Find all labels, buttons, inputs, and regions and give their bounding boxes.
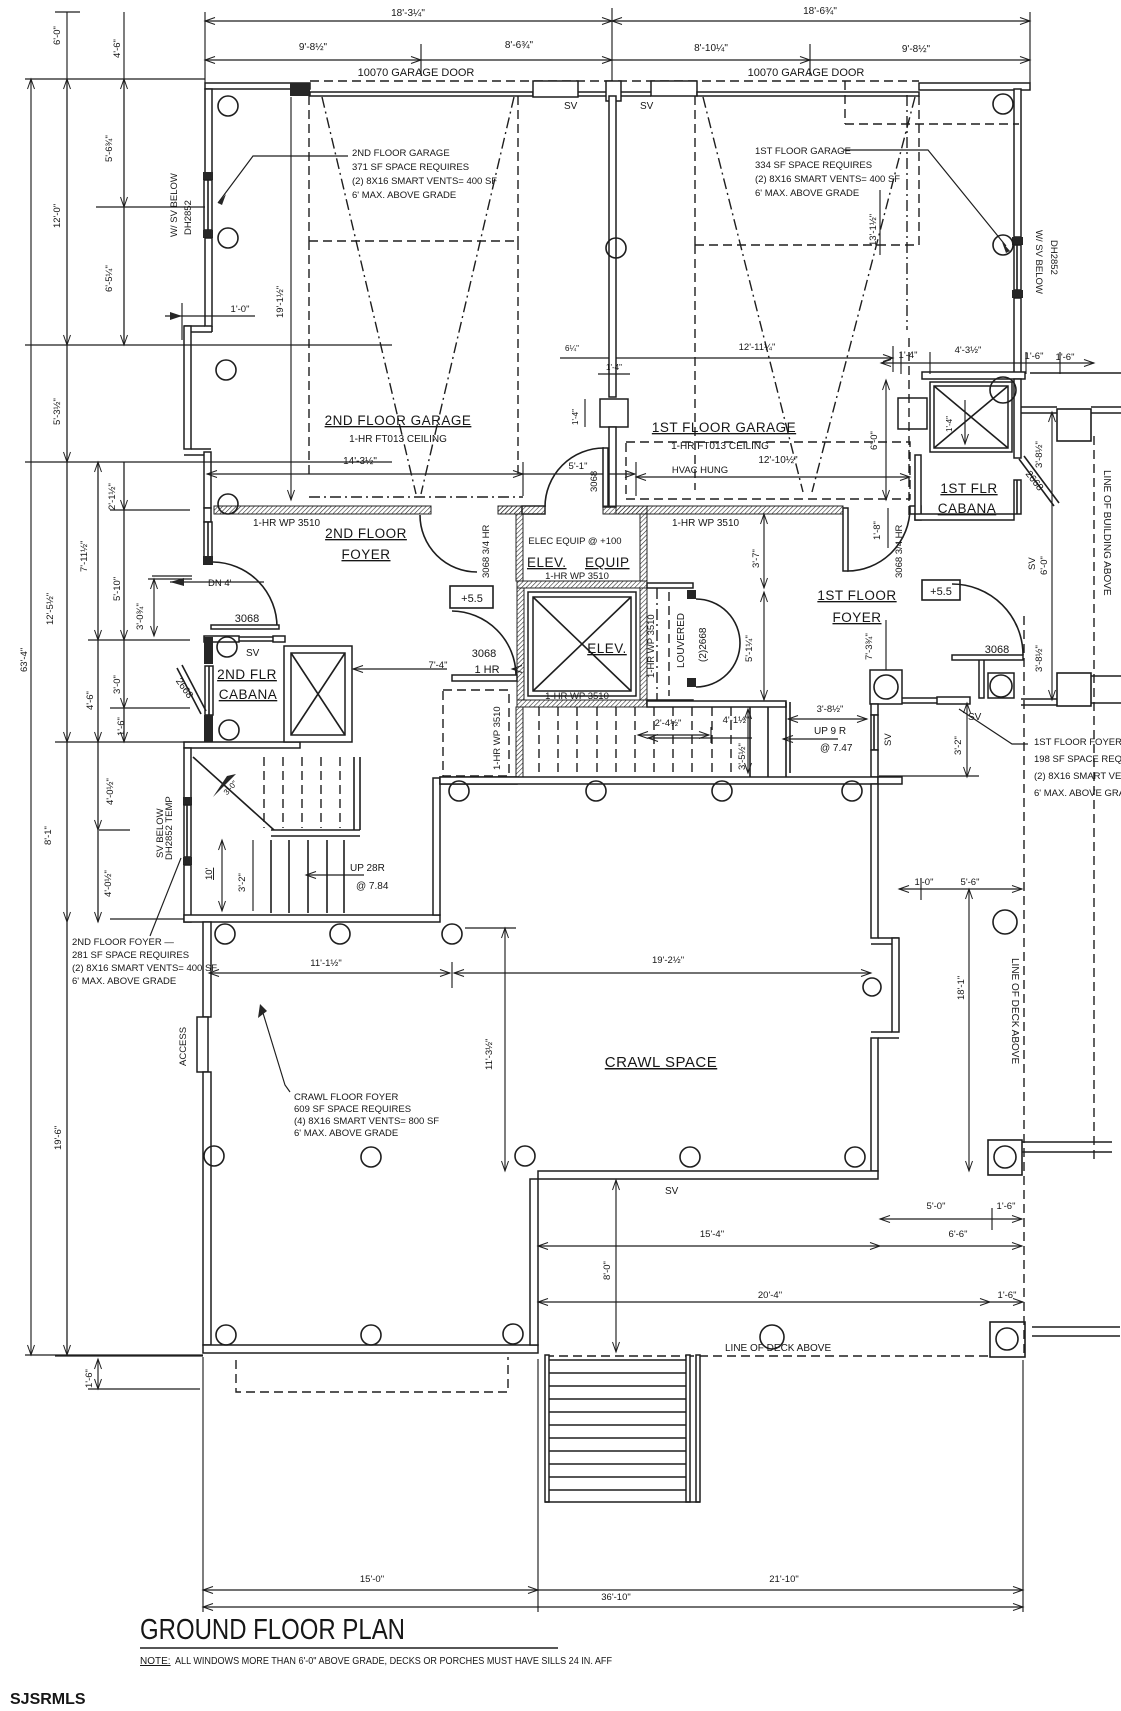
svg-text:12'-10½": 12'-10½" [758,455,798,466]
wall below shaft to foyer level [516,707,523,777]
garage door 1 dashed header [310,80,919,82]
svg-text:15'-0": 15'-0" [360,1574,384,1585]
svg-text:UP 28R: UP 28R [350,863,385,874]
svg-text:6'-0": 6'-0" [52,26,63,45]
svg-text:SV: SV [1027,557,1038,570]
svg-text:6' MAX. ABOVE GRADE: 6' MAX. ABOVE GRADE [755,188,859,199]
svg-text:SV: SV [640,101,654,112]
svg-text:1'-6": 1'-6" [84,1369,95,1388]
deck edge at top right [1021,406,1057,408]
east wall [433,778,440,915]
svg-text:ELEV.: ELEV. [527,555,567,570]
pier black at door jamb [290,83,310,96]
svg-text:19'-6": 19'-6" [53,1126,64,1150]
svg-text:3068 3/4 HR: 3068 3/4 HR [481,525,492,578]
svg-text:2ND FLOOR GARAGE: 2ND FLOOR GARAGE [352,148,450,159]
svg-text:GROUND FLOOR PLAN: GROUND FLOOR PLAN [140,1614,405,1646]
svg-text:6'-0": 6'-0" [1039,556,1050,575]
solid risers [749,707,751,777]
svg-text:8'-6¾": 8'-6¾" [505,40,534,51]
svg-text:ELEC EQUIP @ +100: ELEC EQUIP @ +100 [528,536,621,547]
garage door 1 panel [310,92,533,96]
svg-text:3'-0": 3'-0" [112,675,123,694]
west wall with DH2852 TEMP window [184,748,191,805]
svg-text:63'-4": 63'-4" [19,648,30,672]
svg-text:SV: SV [564,101,578,112]
pier hollow [651,81,697,96]
west wall and bottom wall [915,455,921,520]
svg-text:(2) 8X16 SMART VENTS: (2) 8X16 SMART VENTS [1034,771,1121,782]
svg-text:(2) 8X16 SMART VENTS= 400 SF: (2) 8X16 SMART VENTS= 400 SF [72,963,217,974]
svg-text:10070 GARAGE DOOR: 10070 GARAGE DOOR [358,67,475,79]
1-HR wall right [616,506,843,514]
svg-text:281 SF SPACE REQUIRES: 281 SF SPACE REQUIRES [72,950,189,961]
svg-text:DH2852: DH2852 [183,200,194,235]
svg-text:1-HR WP 3510: 1-HR WP 3510 [672,518,740,529]
svg-text:LINE OF DECK ABOVE: LINE OF DECK ABOVE [1009,958,1020,1064]
wall segment left [205,83,310,89]
center wall cap [606,81,621,101]
svg-text:1ST FLOOR: 1ST FLOOR [817,588,896,603]
svg-text:3'-8½": 3'-8½" [1034,645,1045,672]
dashed box below door [308,96,310,241]
svg-text:1'-0": 1'-0" [231,304,250,315]
svg-text:(2) 8X16 SMART VENTS= 400 SF: (2) 8X16 SMART VENTS= 400 SF [755,174,900,185]
door 3068 3/4HR into 1st floor foyer [847,508,910,571]
svg-text:334 SF SPACE REQUIRES: 334 SF SPACE REQUIRES [755,160,872,171]
svg-text:+5.5: +5.5 [461,593,483,605]
SV sill left of center [578,91,606,93]
svg-text:2ND FLOOR FOYER —: 2ND FLOOR FOYER — [72,937,174,948]
svg-text:3'-8½": 3'-8½" [817,704,844,715]
sill and window [902,697,937,699]
svg-text:CABANA: CABANA [938,501,997,516]
svg-text:1'-4": 1'-4" [571,409,580,425]
crawl floor foyer note + leader [263,1013,290,1092]
chain at x=124 top [123,12,125,345]
svg-text:6' MAX. ABOVE GRADE: 6' MAX. ABOVE GRADE [294,1128,398,1139]
dashed landing rect in front of elevator [443,690,509,776]
equipment box on wall [600,399,628,427]
svg-text:9'-8½": 9'-8½" [299,42,328,53]
2668 swing door on west [177,668,201,714]
svg-text:FOYER: FOYER [341,547,390,562]
+5.5 box [922,580,960,600]
dim line 9'-8 / 8'-6 / 8'-10 / 9'-8 [205,59,421,61]
svg-text:+5.5: +5.5 [930,586,952,598]
svg-text:1ST FLOOR GARAGE: 1ST FLOOR GARAGE [652,420,796,435]
up arrow symbol [213,774,236,797]
upper flight dashed risers [263,757,265,828]
svg-text:3068 3/4 HR: 3068 3/4 HR [894,525,905,578]
svg-text:2'-4½": 2'-4½" [655,718,682,729]
svg-text:6¼": 6¼" [565,344,579,353]
svg-text:5'-1¼": 5'-1¼" [744,635,755,662]
svg-text:LINE OF BUILDING ABOVE: LINE OF BUILDING ABOVE [1101,470,1112,596]
svg-text:12'-11¼": 12'-11¼" [739,342,776,353]
2nd floor foyer note + leader [150,858,181,936]
svg-text:CRAWL FLOOR FOYER: CRAWL FLOOR FOYER [294,1092,398,1103]
svg-text:10070 GARAGE DOOR: 10070 GARAGE DOOR [748,67,865,79]
2nd floor garage leader + note [218,156,348,203]
svg-text:1'-6": 1'-6" [1025,351,1044,362]
garage door 2 panel [697,92,919,96]
svg-text:2ND FLR: 2ND FLR [217,667,277,682]
wall from stair to elevator [440,777,517,784]
svg-text:1-HR FT013 CEILING: 1-HR FT013 CEILING [349,434,447,445]
svg-text:1'-0": 1'-0" [915,877,934,888]
chain at x=124 middle [123,462,125,742]
dashed porch rect below crawl foyer [236,1357,508,1392]
svg-text:1ST FLOOR FOYER: 1ST FLOOR FOYER [1034,737,1121,748]
south wall of crawl space [538,1171,878,1179]
exterior stair [545,1355,549,1502]
svg-text:SV: SV [968,712,982,723]
svg-text:1-HR WP 3510: 1-HR WP 3510 [253,518,321,529]
svg-text:SV: SV [665,1186,679,1197]
west wall with window [204,508,211,522]
jog out [184,325,205,327]
svg-text:@ 7.84: @ 7.84 [356,881,389,892]
dashed verticals continue [308,241,310,474]
svg-text:HVAC HUNG: HVAC HUNG [672,465,728,476]
svg-text:8'-10¼": 8'-10¼" [694,42,728,54]
svg-text:NOTE:: NOTE: [140,1656,171,1667]
svg-text:3'-2": 3'-2" [237,873,248,892]
svg-text:3'-5½": 3'-5½" [737,743,748,770]
east wall of lower section [530,1179,538,1345]
svg-text:1'-6": 1'-6" [1056,352,1075,363]
shaft top wall [922,372,1025,379]
extension lines [204,12,206,83]
svg-text:36'-10": 36'-10" [601,1592,630,1603]
svg-text:EQUIP: EQUIP [585,555,630,570]
svg-text:2'-1½": 2'-1½" [107,483,118,510]
svg-text:DN 4': DN 4' [208,578,232,589]
svg-text:3068: 3068 [985,644,1009,656]
svg-text:6' MAX. ABOVE GRADE: 6' MAX. ABOVE GRADE [72,976,176,987]
svg-text:ALL WINDOWS MORE THAN 6'-0" AB: ALL WINDOWS MORE THAN 6'-0" ABOVE GRADE,… [175,1656,612,1667]
svg-text:5'-3½": 5'-3½" [52,398,63,425]
svg-text:18'-6¾": 18'-6¾" [803,6,837,17]
1st floor garage leader + note [843,150,1006,246]
svg-text:ELEV.: ELEV. [587,641,627,656]
svg-text:(2) 8X16 SMART VENTS= 400 SF: (2) 8X16 SMART VENTS= 400 SF [352,176,497,187]
svg-text:2ND FLOOR GARAGE: 2ND FLOOR GARAGE [325,413,472,428]
svg-text:3'-2": 3'-2" [953,736,964,755]
svg-text:1 HR: 1 HR [474,664,499,676]
svg-text:13'-1½": 13'-1½" [868,214,879,246]
svg-text:198 SF SPACE REQUIR: 198 SF SPACE REQUIR [1034,754,1121,765]
svg-text:SV BELOW: SV BELOW [155,808,166,858]
pier hollow [533,81,578,97]
svg-text:1ST FLR: 1ST FLR [940,481,997,496]
svg-text:5'-6¾": 5'-6¾" [104,135,115,162]
svg-text:SJSRMLS: SJSRMLS [10,1691,86,1708]
svg-text:4'-0½": 4'-0½" [103,870,114,897]
DN 4' note [152,575,192,577]
deck post with circle at 1145 [988,1140,1022,1175]
west wall of crawl foyer [203,922,211,1017]
svg-text:3068: 3068 [589,471,600,492]
wall between passage and door [498,506,522,514]
door 3068 1HR from stair landing to foyer [452,675,517,681]
dashed rect around HVAC note [626,442,910,499]
bottom wall [203,1345,538,1353]
svg-text:4'-1½": 4'-1½" [723,715,750,726]
line of deck above (right) [1023,616,1025,1356]
svg-text:2ND FLOOR: 2ND FLOOR [325,526,407,541]
leader to 1st floor foyer note [959,709,1028,744]
dim line 18'-3 1/4 and 18'-6 3/4 [205,20,612,22]
svg-text:5'-1": 5'-1" [569,461,588,472]
svg-text:1'-6": 1'-6" [997,1201,1016,1212]
1-HR wall left [214,506,431,514]
svg-text:3'-8½": 3'-8½" [1034,441,1045,468]
svg-text:5'-6": 5'-6" [961,877,980,888]
svg-text:LINE OF DECK ABOVE: LINE OF DECK ABOVE [725,1343,831,1354]
svg-text:1-HR WP 3510: 1-HR WP 3510 [545,571,609,582]
svg-text:FOYER: FOYER [832,610,881,625]
bottom wall [184,742,300,748]
wall under shaft/louvered to stair [647,701,786,707]
svg-text:(4) 8X16 SMART VENTS= 800 SF: (4) 8X16 SMART VENTS= 800 SF [294,1116,439,1127]
extension lines to bottom dims [202,1357,204,1612]
svg-text:1'-4": 1'-4" [945,416,954,432]
door 3068 to 2nd floor garage [545,448,604,507]
svg-text:4'-6": 4'-6" [85,691,96,710]
svg-text:6'-6": 6'-6" [949,1229,968,1240]
chain at x=67 [66,12,68,1355]
window DH2852 [203,172,213,180]
svg-text:6' MAX. ABOVE GRADE: 6' MAX. ABOVE GRADE [352,190,456,201]
svg-text:1'-6": 1'-6" [116,717,127,736]
svg-text:12'-5½": 12'-5½" [45,593,56,625]
east wall segment with SV window [871,704,878,715]
svg-text:SV: SV [883,733,894,746]
deck post mid right [1021,698,1057,700]
stair 9R dashed risers [538,707,540,777]
short dashed line near cabana [908,338,910,520]
svg-text:12'-0": 12'-0" [52,204,63,228]
wall segment right [919,83,1030,90]
svg-text:7'-11½": 7'-11½" [79,541,90,572]
svg-text:18'-1": 18'-1" [956,976,967,1000]
svg-text:21'-10": 21'-10" [769,1574,798,1585]
svg-text:3'-7": 3'-7" [751,549,762,568]
svg-text:1'-8": 1'-8" [872,521,883,540]
svg-text:W/ SV BELOW: W/ SV BELOW [1033,230,1044,294]
break line diagonal [193,757,274,830]
lower flight solid risers [270,840,272,913]
svg-text:1'-6": 1'-6" [998,1290,1017,1301]
svg-text:(2)2668: (2)2668 [698,627,709,662]
svg-text:CABANA: CABANA [219,687,278,702]
svg-text:5'-0": 5'-0" [927,1201,946,1212]
svg-text:5'-10": 5'-10" [112,577,123,601]
svg-text:15'-4": 15'-4" [700,1229,724,1240]
tick rows [55,11,80,13]
landing edge [353,757,355,830]
svg-text:SV: SV [246,648,260,659]
west wall jambs and window [204,637,213,664]
top wall [440,777,878,784]
post with circle right [979,657,984,698]
+5.5 box left [450,586,493,608]
chain at x=154 [153,579,155,636]
svg-text:DH2852: DH2852 [1048,240,1059,275]
chain at x=98 [97,462,99,922]
jog in [191,448,211,450]
dash-dot V template [322,97,416,494]
line of deck above (bottom) [545,1355,990,1357]
dim line 14'-3 1/2 / 5'-1 / 12'-10 1/2 [207,473,523,475]
svg-text:18'-3¼": 18'-3¼" [391,7,425,19]
svg-text:8'-1": 8'-1" [43,826,54,845]
window on east wall below [1014,480,1021,514]
svg-text:6'-5¼": 6'-5¼" [104,265,115,292]
svg-text:10': 10' [204,867,215,880]
svg-text:609 SF SPACE REQUIRES: 609 SF SPACE REQUIRES [294,1104,411,1115]
svg-text:9'-8½": 9'-8½" [902,44,931,55]
svg-text:1-HR WP 3510: 1-HR WP 3510 [646,614,657,678]
chain arrows [66,79,68,345]
svg-text:1-HR WP 3510: 1-HR WP 3510 [492,706,503,770]
svg-text:4'-0½": 4'-0½" [105,778,116,805]
post with circle left [870,670,902,704]
svg-text:19'-1½": 19'-1½" [275,286,286,318]
svg-text:UP 9 R: UP 9 R [814,726,846,737]
line of building above [1093,436,1095,1162]
svg-text:11'-3½": 11'-3½" [484,1039,495,1070]
svg-text:8'-0": 8'-0" [602,1261,613,1280]
svg-text:3068: 3068 [472,648,496,660]
east wall with jog [871,784,878,938]
top wall with SV sill [204,636,239,642]
svg-text:3'-0¾": 3'-0¾" [135,603,146,630]
svg-text:1'-4": 1'-4" [606,363,622,372]
south wall [184,915,440,922]
passage door 3068 3/4HR swinging into foyer [420,515,477,572]
tick line east of wall [879,775,979,777]
deck post bottom right [990,1322,1025,1357]
door opening box on left [898,398,927,429]
svg-text:1-HR WP 3510: 1-HR WP 3510 [545,691,609,702]
svg-text:11'-1½": 11'-1½" [310,958,341,969]
svg-text:@ 7.47: @ 7.47 [820,743,853,754]
SV sill right of center [621,91,651,93]
svg-text:4'-3½": 4'-3½" [955,345,982,356]
svg-text:7'-3¾": 7'-3¾" [864,633,875,660]
shaft box [930,382,1012,452]
svg-text:6' MAX. ABOVE GRAD: 6' MAX. ABOVE GRAD [1034,788,1121,799]
svg-text:1ST FLOOR GARAGE: 1ST FLOOR GARAGE [755,146,851,157]
svg-text:CRAWL SPACE: CRAWL SPACE [605,1054,717,1071]
svg-text:ACCESS: ACCESS [178,1027,189,1066]
angled 2668 door [1019,459,1054,506]
svg-text:4'-6": 4'-6" [112,39,123,58]
svg-text:20'-4": 20'-4" [758,1290,782,1301]
svg-text:6'-0": 6'-0" [869,431,880,450]
svg-text:3068: 3068 [235,613,259,625]
svg-text:19'-2½": 19'-2½" [652,955,684,966]
svg-text:W/ SV BELOW: W/ SV BELOW [169,173,180,237]
svg-text:LOUVERED: LOUVERED [676,613,687,668]
svg-text:371 SF SPACE REQUIRES: 371 SF SPACE REQUIRES [352,162,469,173]
